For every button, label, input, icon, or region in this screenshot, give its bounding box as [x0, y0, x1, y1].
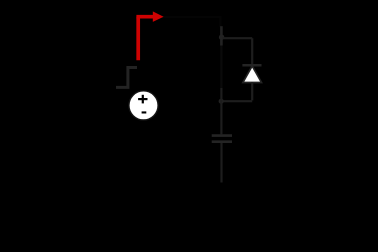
capacitor C1: [212, 136, 232, 183]
switch S1: [116, 68, 137, 88]
wire top rail from arrow to transistor drain: [162, 17, 220, 27]
wire diode anode to node A: [221, 100, 252, 102]
wire gate to diode branch: [223, 37, 253, 39]
diode D1: [242, 65, 261, 100]
wire transistor source down to capacitor: [220, 46, 222, 135]
node A junction dot: [219, 99, 224, 104]
transistor Q1 gate bar: [219, 26, 224, 45]
wire down to diode cathode: [251, 38, 253, 64]
current arrow I1: [136, 11, 163, 60]
voltage source V1: [129, 91, 158, 120]
